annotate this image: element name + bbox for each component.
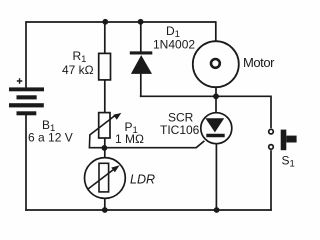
wire left rail lower bbox=[25, 115, 27, 211]
diode D1 cathode bar bbox=[130, 51, 153, 54]
wire P1 to node A bbox=[104, 138, 106, 158]
svg-text:S1: S1 bbox=[282, 154, 295, 170]
LDR arrow bbox=[88, 169, 114, 189]
wire R1 to P1 bbox=[104, 80, 106, 113]
potentiometer P1 bbox=[99, 113, 110, 138]
svg-text:47 kΩ: 47 kΩ bbox=[62, 63, 94, 77]
svg-text:1N4002: 1N4002 bbox=[153, 37, 195, 51]
switch S1 button bbox=[281, 130, 297, 151]
svg-text:LDR: LDR bbox=[130, 173, 155, 187]
svg-text:1 MΩ: 1 MΩ bbox=[115, 132, 144, 146]
wire D1 anode down bbox=[140, 74, 142, 97]
node J1 R1 top bbox=[102, 19, 108, 25]
wire bottom rail bbox=[25, 209, 272, 211]
node A (gate junction) bbox=[102, 145, 108, 151]
svg-text:Motor: Motor bbox=[243, 55, 275, 70]
battery B1 bbox=[9, 87, 44, 115]
wire SCR gate bbox=[105, 141, 205, 148]
wire motor feed bbox=[215, 21, 217, 42]
svg-text:6 a 12 V: 6 a 12 V bbox=[28, 131, 73, 145]
wire switch feed bbox=[270, 96, 272, 129]
node J2 D1 top bbox=[138, 19, 144, 25]
motor M bbox=[193, 41, 239, 87]
wire top rail bbox=[26, 21, 216, 23]
potentiometer P1 wiper tie bbox=[89, 134, 104, 148]
switch S1 contact bottom bbox=[269, 145, 274, 150]
diode D1 triangle bbox=[131, 55, 152, 74]
wire LDR to bottom rail bbox=[104, 198, 106, 210]
wire left rail upper bbox=[25, 21, 27, 88]
switch S1 contact top bbox=[269, 129, 274, 134]
wire motor node to switch bbox=[216, 95, 271, 97]
wire motor to SCR bbox=[215, 87, 217, 113]
LDR bbox=[85, 158, 126, 199]
wire D1 to motor node bbox=[140, 95, 216, 97]
resistor R1 bbox=[99, 53, 111, 80]
node bottom SCR bbox=[214, 207, 220, 213]
node motor bottom bbox=[213, 93, 219, 99]
wire switch to bottom rail bbox=[270, 150, 272, 211]
SCR U1 bbox=[201, 113, 232, 144]
node bottom left (LDR) bbox=[102, 207, 108, 213]
potentiometer P1 arrow bbox=[90, 114, 117, 134]
wire R1 branch bbox=[104, 22, 106, 54]
battery plus sign bbox=[17, 78, 23, 84]
wire D1 branch bbox=[140, 22, 142, 52]
svg-text:TIC106: TIC106 bbox=[160, 123, 200, 137]
wire SCR cathode bbox=[215, 144, 217, 211]
